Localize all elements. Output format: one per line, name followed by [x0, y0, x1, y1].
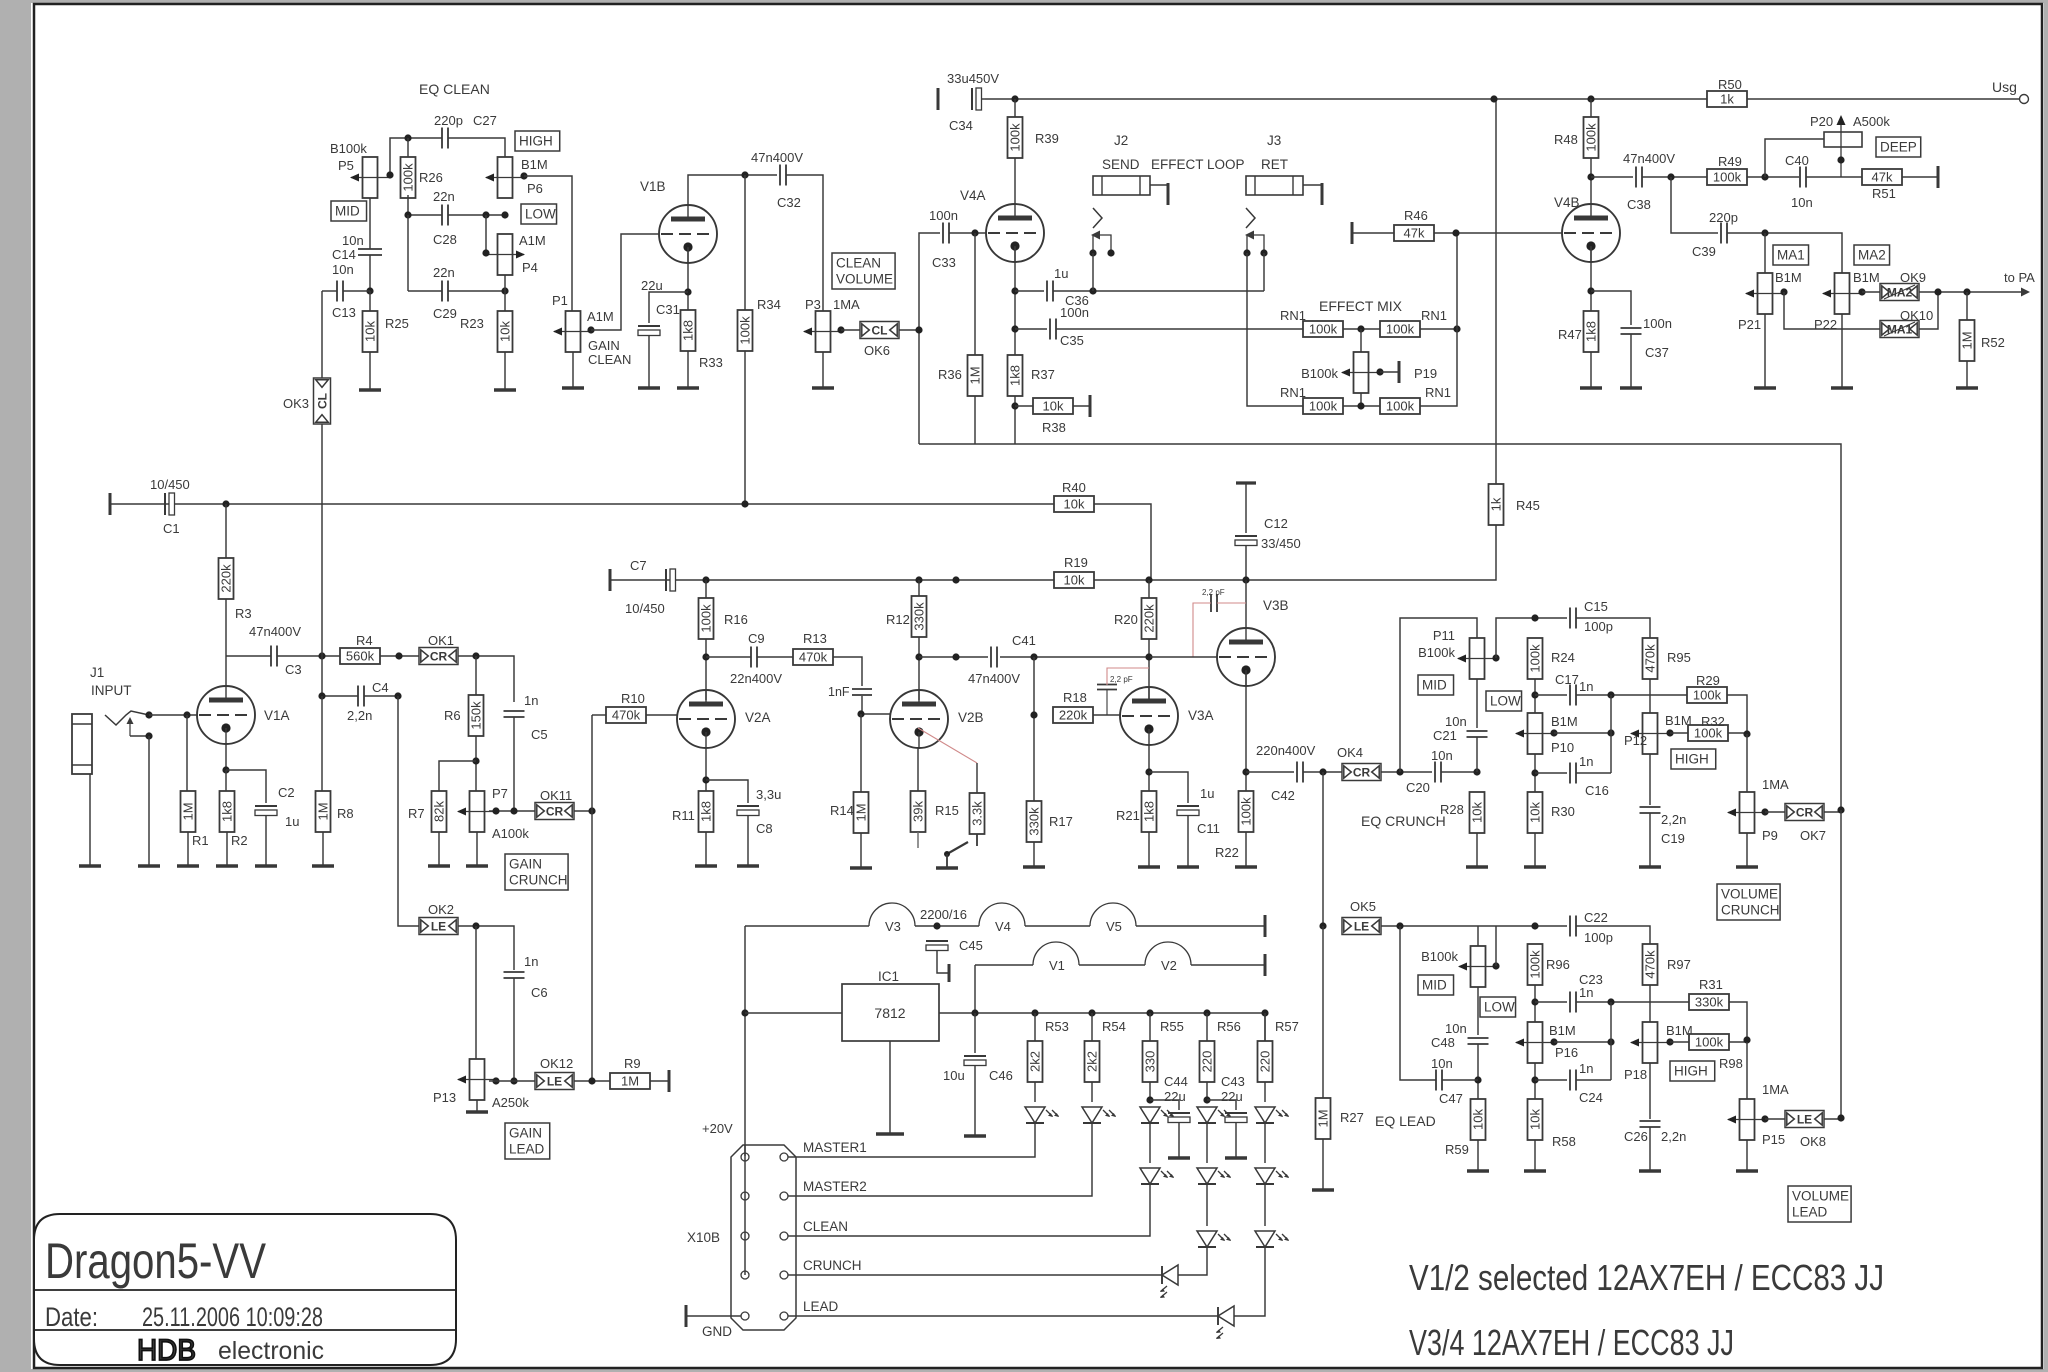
- svg-text:GAIN: GAIN: [509, 857, 542, 872]
- svg-text:220k: 220k: [1142, 604, 1157, 633]
- tube V3A: [1120, 687, 1178, 745]
- wire P14 top lead: [1477, 926, 1479, 946]
- svg-text:220k: 220k: [1059, 708, 1088, 723]
- jack J3 lever: [1247, 235, 1264, 253]
- svg-text:EFFECT LOOP: EFFECT LOOP: [1151, 157, 1245, 172]
- terminal R51: [1937, 166, 1940, 188]
- wire P19 top: [1360, 329, 1362, 352]
- svg-text:R34: R34: [757, 297, 781, 312]
- node C39 P21: [1761, 229, 1768, 236]
- wire J1 tip to V1A grid: [149, 714, 198, 716]
- wire R57 top lead: [1264, 1013, 1266, 1041]
- svg-text:HDB: HDB: [137, 1334, 196, 1367]
- svg-text:V2A: V2A: [745, 710, 771, 725]
- red wire 2p2 to plate: [1107, 668, 1149, 685]
- wire C2 to ground: [265, 815, 267, 866]
- wire C38 line: [1591, 176, 1633, 178]
- wire P21 ground: [1764, 314, 1766, 388]
- node R54 top: [1088, 1009, 1095, 1016]
- svg-text:B1M: B1M: [1551, 714, 1578, 729]
- jack J2 lever: [1093, 235, 1111, 253]
- svg-text:10n: 10n: [332, 262, 354, 277]
- wire R57 to LED: [1264, 1082, 1266, 1102]
- svg-text:150k: 150k: [469, 701, 484, 730]
- svg-text:C46: C46: [989, 1068, 1013, 1083]
- wire D57a to D57b: [1264, 1122, 1266, 1163]
- svg-text:R4: R4: [356, 633, 373, 648]
- wire R3 leads: [225, 504, 227, 558]
- node R34 bottom on B+ line: [741, 500, 748, 507]
- wire C28 line: [408, 195, 442, 215]
- svg-text:V3B: V3B: [1263, 598, 1289, 613]
- node V1B cathode: [684, 288, 691, 295]
- resistor R26: [401, 157, 416, 198]
- node V2A cathode: [702, 776, 709, 783]
- svg-text:220n400V: 220n400V: [1256, 743, 1316, 758]
- wire R6 bottom: [475, 736, 477, 791]
- wire cathode to C11: [1149, 772, 1188, 803]
- svg-text:C6: C6: [531, 985, 548, 1000]
- ground C2: [255, 864, 277, 867]
- svg-text:22n: 22n: [433, 189, 455, 204]
- wire R26 bottom to C29: [407, 215, 409, 291]
- resistor R3: [219, 558, 234, 599]
- resistor R22: [1239, 791, 1254, 832]
- node P3 wiper: [837, 326, 844, 333]
- svg-text:2,2n: 2,2n: [1661, 812, 1686, 827]
- wire OK7 out: [1824, 811, 1841, 813]
- ground R47: [1580, 386, 1602, 389]
- svg-text:R3: R3: [235, 606, 252, 621]
- wire R97 bottom to P18: [1649, 985, 1651, 1022]
- wire RN1 top right: [1420, 328, 1457, 330]
- wire R36 to rail: [974, 396, 976, 444]
- svg-text:22n: 22n: [433, 265, 455, 280]
- resistor RN1 a: [1303, 321, 1343, 337]
- svg-text:MID: MID: [1422, 978, 1447, 993]
- wire C38 out: [1642, 176, 1707, 178]
- wire C24 line: [1535, 1079, 1567, 1081]
- node C38 out: [1667, 173, 1674, 180]
- svg-text:to PA: to PA: [2004, 270, 2035, 285]
- wire R54 top lead: [1091, 1013, 1093, 1041]
- ground J1: [79, 864, 101, 867]
- wire C8 ground: [747, 815, 749, 866]
- node R55 top: [1146, 1009, 1153, 1016]
- svg-text:47n400V: 47n400V: [751, 150, 803, 165]
- svg-text:C1: C1: [163, 521, 180, 536]
- svg-text:OK7: OK7: [1800, 828, 1826, 843]
- label DEEP: [1876, 137, 1921, 157]
- node RN1 mid top: [1357, 325, 1364, 332]
- svg-text:1k8: 1k8: [1008, 365, 1023, 386]
- wire R45 top to Usg rail: [1495, 99, 1497, 484]
- wire P15 ground: [1746, 1140, 1748, 1171]
- terminal R46: [1351, 222, 1354, 244]
- svg-text:R38: R38: [1042, 420, 1066, 435]
- svg-text:R55: R55: [1160, 1019, 1184, 1034]
- node bus tap: [952, 576, 959, 583]
- capacitor C33: [942, 223, 944, 244]
- svg-text:R32: R32: [1701, 714, 1725, 729]
- ground R30: [1524, 865, 1546, 868]
- svg-text:LEAD: LEAD: [803, 1299, 839, 1314]
- wire P9 wiper to OK7: [1765, 811, 1785, 813]
- node C43 tap: [1203, 1096, 1210, 1103]
- ground C8: [737, 864, 759, 867]
- node R98 out: [1743, 1036, 1750, 1043]
- wire D56c to CRUNCH led: [1178, 1246, 1207, 1275]
- node C23 out: [1607, 998, 1614, 1005]
- svg-text:100k: 100k: [401, 163, 416, 192]
- svg-text:C19: C19: [1661, 831, 1685, 846]
- resistor R48: [1584, 117, 1599, 158]
- wire V1B cathode: [687, 248, 689, 310]
- capacitor C3: [270, 646, 272, 667]
- wire heater row V1 V2: [975, 964, 1033, 966]
- node 7812 in: [741, 1009, 748, 1016]
- title divider 2: [34, 1329, 456, 1331]
- node OK5 out: [1396, 922, 1403, 929]
- node P1 wiper: [587, 326, 594, 333]
- svg-text:SEND: SEND: [1102, 157, 1140, 172]
- svg-text:RET: RET: [1261, 157, 1288, 172]
- node V3A cathode: [1145, 768, 1152, 775]
- node C28 right P4: [482, 211, 489, 218]
- wire R26 top lead: [407, 138, 409, 157]
- wire P18 bottom to C26: [1649, 1063, 1651, 1119]
- wire mix bus rail y444: [919, 444, 1841, 810]
- svg-text:1k8: 1k8: [681, 320, 696, 341]
- wire C20 out: [1441, 771, 1477, 773]
- svg-text:R51: R51: [1872, 186, 1896, 201]
- capacitor C7: [665, 569, 667, 591]
- wire C23 line: [1535, 1001, 1567, 1003]
- wire D57b to D57c: [1264, 1183, 1266, 1226]
- tube V1A: [197, 686, 255, 744]
- wire R98 node down to P15: [1746, 1042, 1748, 1099]
- wire P12 bottom to C19: [1649, 754, 1651, 805]
- ground C37: [1620, 386, 1642, 389]
- capacitor C36: [1046, 281, 1048, 302]
- wire R9 to terminal: [650, 1080, 669, 1082]
- svg-text:OK9: OK9: [1900, 270, 1926, 285]
- wire D55b to CLEAN: [790, 1183, 1150, 1236]
- label GAIN CRUNCH: [505, 854, 568, 890]
- node C13 C14 R25: [366, 287, 373, 294]
- wire J3 left down to mixer: [1247, 253, 1303, 406]
- wire C36 to J2: [1053, 290, 1264, 292]
- svg-text:R40: R40: [1062, 480, 1086, 495]
- node V3B cathode: [1242, 768, 1249, 775]
- resistor R36: [968, 355, 983, 396]
- wire R54 to LED: [1091, 1082, 1093, 1102]
- wire R40 out corner down to R19 node: [1094, 504, 1151, 580]
- ground J1 switch: [138, 864, 160, 867]
- wire C37 ground: [1630, 334, 1632, 388]
- svg-text:C22: C22: [1584, 910, 1608, 925]
- node C46 top: [971, 1009, 978, 1016]
- node R96 top: [1531, 922, 1538, 929]
- wire R28 ground: [1476, 833, 1478, 867]
- resistor R95: [1643, 638, 1658, 679]
- svg-text:V3A: V3A: [1188, 708, 1214, 723]
- wire cathode to C37: [1591, 291, 1631, 325]
- ground C44: [1168, 1156, 1190, 1159]
- resistor R38: [1033, 398, 1073, 414]
- wire CLEAN stub: [788, 1235, 790, 1237]
- wire C47 line: [1400, 926, 1436, 1080]
- svg-text:C32: C32: [777, 195, 801, 210]
- svg-text:OK8: OK8: [1800, 1134, 1826, 1149]
- capacitor C27: [441, 128, 443, 149]
- wire C13 left: [322, 290, 337, 292]
- node P16 wiper: [1550, 1038, 1557, 1045]
- wire R32 out: [1728, 732, 1747, 734]
- node R34 top: [741, 171, 748, 178]
- svg-text:10k: 10k: [1064, 573, 1085, 588]
- wire R96 bottom: [1534, 985, 1536, 1022]
- resistor R17: [1027, 801, 1042, 842]
- svg-text:CLEAN: CLEAN: [836, 256, 881, 271]
- ground R1: [177, 864, 199, 867]
- ground P7: [466, 864, 488, 867]
- svg-text:B1M: B1M: [521, 157, 548, 172]
- node R6 bottom: [472, 757, 479, 764]
- led D56b: [1197, 1168, 1217, 1184]
- node V2B grid: [857, 710, 864, 717]
- resistor R10: [606, 707, 646, 723]
- pin X10B right row 1: [780, 1153, 788, 1161]
- wire C19 ground: [1649, 813, 1651, 867]
- node P22 wiper: [1858, 288, 1865, 295]
- svg-text:C14: C14: [332, 247, 356, 262]
- ground R28: [1466, 865, 1488, 868]
- node P21 wiper: [1780, 288, 1787, 295]
- wire R36 top: [974, 233, 976, 355]
- wire P22 ground: [1841, 314, 1843, 388]
- svg-text:2k2: 2k2: [1085, 1051, 1100, 1072]
- wire 3k3 top: [976, 763, 978, 793]
- node P18 wiper: [1666, 1038, 1673, 1045]
- svg-text:MASTER1: MASTER1: [803, 1140, 867, 1155]
- svg-text:HIGH: HIGH: [519, 134, 553, 149]
- wire P11 wiper up to C15 line: [1496, 618, 1535, 658]
- svg-text:C17: C17: [1555, 672, 1579, 687]
- resistor R15: [911, 791, 926, 832]
- ground P21: [1754, 386, 1776, 389]
- svg-text:C20: C20: [1406, 780, 1430, 795]
- heater arc V4: [979, 903, 1025, 926]
- wire P14 wiper up: [1495, 926, 1497, 966]
- svg-text:100k: 100k: [1008, 123, 1023, 152]
- capacitor C19: [1640, 806, 1661, 808]
- led D53: [1025, 1107, 1045, 1123]
- wire P19 wiper to terminal: [1380, 371, 1399, 373]
- svg-text:C31: C31: [656, 302, 680, 317]
- svg-text:22u: 22u: [641, 278, 663, 293]
- svg-text:3,3u: 3,3u: [756, 787, 781, 802]
- wire V1A cathode: [225, 744, 227, 770]
- svg-text:R24: R24: [1551, 650, 1575, 665]
- pin X10B right row 5: [780, 1312, 788, 1320]
- svg-text:P9: P9: [1762, 828, 1778, 843]
- node P11 wiper: [1492, 654, 1499, 661]
- wire D57c to LEAD led: [1234, 1246, 1265, 1316]
- wire V1A plate node to C3: [226, 655, 271, 657]
- node J3 right contact: [1260, 249, 1267, 256]
- node R96 bottom: [1531, 998, 1538, 1005]
- node input R1: [183, 711, 190, 718]
- potentiometer P14: [1471, 946, 1486, 987]
- potentiometer P1: [566, 311, 581, 352]
- svg-text:100k: 100k: [1528, 950, 1543, 979]
- node OK2 out: [472, 922, 479, 929]
- svg-text:A500k: A500k: [1853, 114, 1890, 129]
- svg-text:LE: LE: [1797, 1113, 1812, 1127]
- svg-text:1k8: 1k8: [1584, 321, 1599, 342]
- wire R12 leads: [918, 580, 920, 596]
- svg-text:C34: C34: [949, 118, 973, 133]
- wire R17 ground: [1033, 842, 1035, 867]
- svg-text:CR: CR: [430, 650, 448, 664]
- node R6 top: [472, 652, 479, 659]
- svg-text:P13: P13: [433, 1090, 456, 1105]
- wire V2B cathode to R15: [917, 748, 919, 791]
- capacitor C15: [1569, 608, 1571, 629]
- ground P1: [562, 386, 584, 389]
- svg-text:C42: C42: [1271, 788, 1295, 803]
- resistor R3k3: [970, 793, 985, 834]
- connector X10B outline: [731, 1145, 796, 1330]
- wire R95 bottom to P12: [1649, 679, 1651, 713]
- svg-text:C45: C45: [959, 938, 983, 953]
- label MID clean: [331, 201, 367, 221]
- resistor R32: [1688, 725, 1728, 741]
- node R56 top: [1203, 1009, 1210, 1016]
- resistor R55: [1143, 1041, 1158, 1082]
- resistor R54: [1085, 1041, 1100, 1082]
- svg-text:P21: P21: [1738, 317, 1761, 332]
- pin X10B left row 2: [741, 1192, 749, 1200]
- wire R32 node down to P9: [1746, 734, 1748, 792]
- wire C16 C17 vertical: [1610, 695, 1612, 773]
- svg-text:R27: R27: [1340, 1110, 1364, 1125]
- svg-text:EQ CLEAN: EQ CLEAN: [419, 81, 490, 97]
- opto OK7: [1785, 804, 1824, 821]
- svg-text:R8: R8: [337, 806, 354, 821]
- wire C21 bottom: [1476, 737, 1478, 772]
- capacitor C16: [1569, 763, 1571, 784]
- svg-text:VOLUME: VOLUME: [836, 272, 893, 287]
- svg-text:1M: 1M: [621, 1074, 639, 1089]
- svg-text:R48: R48: [1554, 132, 1578, 147]
- potentiometer P18: [1643, 1022, 1658, 1063]
- pin X10B left row 5: [741, 1312, 749, 1320]
- ground R21: [1138, 865, 1160, 868]
- svg-text:1u: 1u: [285, 814, 299, 829]
- node V4B cathode: [1587, 287, 1594, 294]
- svg-text:2,2n: 2,2n: [1661, 1129, 1686, 1144]
- wire P6 wiper to P1 top: [524, 176, 572, 311]
- svg-text:OK6: OK6: [864, 343, 890, 358]
- svg-text:R97: R97: [1667, 957, 1691, 972]
- svg-text:470k: 470k: [1643, 950, 1658, 979]
- wire P22 wiper to OK9: [1862, 291, 1880, 293]
- resistor R9: [610, 1073, 650, 1089]
- resistor R47: [1584, 311, 1599, 352]
- node OK6 mix bus: [915, 326, 922, 333]
- wire R53 top lead: [1034, 1013, 1036, 1041]
- opto OK5: [1342, 918, 1381, 935]
- resistor R46: [1394, 225, 1434, 241]
- ground R25: [359, 388, 381, 391]
- node P6 bottom: [501, 211, 508, 218]
- heater arc V3: [869, 903, 915, 926]
- opto OK8: [1785, 1111, 1824, 1128]
- svg-text:MID: MID: [1422, 678, 1447, 693]
- capacitor C13: [336, 281, 338, 302]
- potentiometer P9: [1740, 792, 1755, 833]
- resistor RN1 d: [1380, 398, 1420, 414]
- wire J3 right down to C36 line: [1263, 253, 1265, 291]
- resistor R28: [1470, 792, 1485, 833]
- wire x322 vertical: [321, 291, 323, 378]
- pin X10B right row 3: [780, 1232, 788, 1240]
- wire R27 ground: [1322, 1139, 1324, 1190]
- node P10 bottom: [1531, 769, 1538, 776]
- node C6 bottom: [510, 1077, 517, 1084]
- capacitor C38: [1635, 167, 1637, 188]
- wire mix bus vertical up to C33: [919, 233, 940, 444]
- node P5 wiper: [386, 171, 393, 178]
- svg-text:C9: C9: [748, 631, 765, 646]
- svg-text:GND: GND: [702, 1324, 732, 1339]
- wire D55a to D55b: [1149, 1122, 1151, 1163]
- wire C39 out: [1727, 233, 1842, 273]
- wire C46 top: [974, 1013, 976, 1053]
- pin X10B left row 3: [741, 1232, 749, 1240]
- terminal P19: [1398, 361, 1401, 383]
- svg-text:10k: 10k: [363, 321, 378, 342]
- ground C31: [638, 386, 660, 389]
- ground R17: [1023, 865, 1045, 868]
- ground R2: [216, 864, 238, 867]
- resistor R27: [1316, 1098, 1331, 1139]
- wire R29 out corner: [1727, 695, 1747, 734]
- svg-text:C39: C39: [1692, 244, 1716, 259]
- svg-text:47n400V: 47n400V: [249, 624, 301, 639]
- resistor R33: [681, 310, 696, 351]
- svg-text:R39: R39: [1035, 131, 1059, 146]
- svg-text:2,2n: 2,2n: [347, 708, 372, 723]
- resistor R7: [432, 791, 447, 832]
- wire C35 line: [1015, 328, 1047, 330]
- svg-text:B1M: B1M: [1549, 1023, 1576, 1038]
- capacitor C4: [357, 686, 359, 707]
- svg-text:C12: C12: [1264, 516, 1288, 531]
- node P15 wiper: [1761, 1115, 1768, 1122]
- label VOLUME LEAD: [1788, 1186, 1851, 1222]
- wire R14 ground: [860, 833, 862, 868]
- node P19 wiper: [1376, 368, 1383, 375]
- svg-text:10k: 10k: [1064, 497, 1085, 512]
- node P7 wiper: [492, 807, 499, 814]
- wire P16 bottom: [1534, 1063, 1536, 1099]
- wire C5 bottom: [513, 717, 515, 811]
- svg-text:R58: R58: [1552, 1134, 1576, 1149]
- svg-text:MID: MID: [335, 204, 360, 219]
